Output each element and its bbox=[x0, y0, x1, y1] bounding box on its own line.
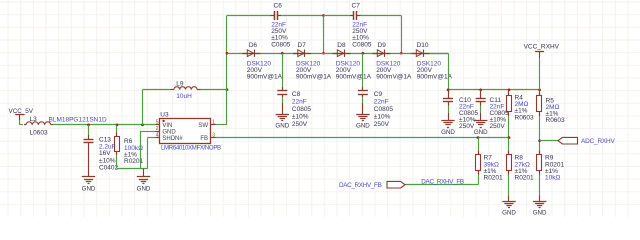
junction FB at R7 bbox=[477, 136, 480, 139]
junction output at C11 bbox=[479, 88, 482, 91]
svg-text:GND: GND bbox=[356, 123, 370, 130]
svg-text:±10%: ±10% bbox=[292, 113, 309, 120]
junction ADC tap bbox=[538, 139, 541, 142]
ground for R8 bbox=[502, 195, 516, 216]
wire DAC line bbox=[405, 184, 478, 186]
capacitor C6 bbox=[271, 2, 291, 48]
svg-text:22nF: 22nF bbox=[292, 98, 307, 105]
svg-text:4: 4 bbox=[156, 132, 159, 138]
junction SW node at diode line bbox=[226, 52, 229, 55]
svg-text:D10: D10 bbox=[417, 42, 429, 49]
capacitor C11 bbox=[476, 90, 509, 130]
capacitor C9 bbox=[358, 53, 393, 128]
svg-text:C7: C7 bbox=[352, 2, 361, 9]
wire U3 SHDN# pin to ground bbox=[148, 138, 156, 169]
svg-text:L0603: L0603 bbox=[30, 130, 48, 137]
svg-text:GND: GND bbox=[474, 129, 488, 136]
wire L9 to SW node bbox=[201, 89, 228, 91]
svg-text:250V: 250V bbox=[459, 123, 475, 130]
wire VIN rail bbox=[53, 124, 156, 126]
wire diode line bbox=[227, 53, 448, 55]
ground for C11 bbox=[474, 113, 488, 136]
capacitor C8 bbox=[277, 53, 311, 128]
svg-text:GND: GND bbox=[162, 130, 176, 136]
hierarchical label ADC_RXHV bbox=[558, 137, 615, 145]
junction right tap at diode line bbox=[400, 52, 403, 55]
wire D10 to output corner bbox=[430, 53, 449, 55]
svg-text:5: 5 bbox=[156, 120, 159, 126]
diode D7 DSK120 bbox=[293, 42, 332, 81]
ground for R9 bbox=[533, 195, 547, 216]
wire ADC tap to label bbox=[540, 140, 558, 142]
ground for C13 bbox=[82, 177, 96, 193]
svg-text:ADC_RXHV: ADC_RXHV bbox=[581, 138, 615, 145]
svg-text:VCC_RXHV: VCC_RXHV bbox=[524, 43, 560, 50]
svg-text:3: 3 bbox=[212, 132, 215, 138]
wire mid vertical C6/C7 tap bbox=[323, 16, 325, 54]
svg-text:L3: L3 bbox=[30, 116, 38, 123]
svg-text:900mV@1A: 900mV@1A bbox=[296, 74, 332, 81]
wire right vertical C7 tap bbox=[401, 16, 403, 54]
svg-text:C0805: C0805 bbox=[352, 41, 372, 48]
ground for U3/R6 bbox=[137, 169, 151, 193]
svg-text:C6: C6 bbox=[274, 2, 283, 9]
svg-text:GND: GND bbox=[533, 210, 547, 217]
net label DAC_RXHV_FB bbox=[421, 178, 464, 185]
svg-text:R0603: R0603 bbox=[515, 114, 535, 121]
svg-text:U3: U3 bbox=[160, 112, 169, 119]
svg-text:1: 1 bbox=[212, 120, 215, 126]
wire C7 to right corner bbox=[361, 15, 402, 17]
svg-text:900mV@1A: 900mV@1A bbox=[376, 74, 412, 81]
ground for C9 bbox=[356, 108, 370, 130]
svg-text:GND: GND bbox=[137, 185, 151, 192]
capacitor C13 bbox=[84, 125, 119, 177]
wire FB line bbox=[216, 137, 509, 139]
svg-text:22nF: 22nF bbox=[374, 98, 389, 105]
resistor R4 bbox=[507, 90, 535, 138]
svg-text:VIN: VIN bbox=[162, 123, 172, 129]
svg-text:C0805: C0805 bbox=[271, 41, 291, 48]
wire output node line bbox=[448, 89, 540, 91]
junction SW node at L9 bbox=[226, 88, 229, 91]
junction output at R4 bbox=[508, 88, 511, 91]
svg-text:GND: GND bbox=[82, 185, 96, 192]
wire VIN rail to L9 bbox=[143, 90, 171, 125]
capacitor C10 bbox=[443, 90, 479, 130]
svg-text:DAC_RXHV_FB: DAC_RXHV_FB bbox=[421, 178, 464, 185]
junction at C13 bbox=[87, 124, 90, 127]
hierarchical label DAC_RXHV_FB bbox=[339, 181, 405, 189]
wire R5 to R9 bbox=[539, 141, 541, 151]
diode D8 DSK120 bbox=[333, 42, 372, 81]
svg-text:250V: 250V bbox=[374, 121, 390, 128]
inductor L9 bbox=[171, 81, 201, 101]
inductor L3 bbox=[24, 116, 107, 137]
power flag VCC_RXHV bbox=[524, 43, 560, 89]
power flag VCC_5V bbox=[9, 108, 34, 120]
diode D10 DSK120 bbox=[412, 42, 453, 81]
capacitor C7 bbox=[350, 2, 372, 48]
resistor R5 bbox=[537, 90, 566, 141]
junction mid tap at diode line bbox=[322, 52, 325, 55]
svg-text:900mV@1A: 900mV@1A bbox=[247, 74, 283, 81]
wire R7 to DAC line bbox=[478, 175, 480, 185]
svg-text:R0603: R0603 bbox=[546, 117, 566, 124]
svg-text:LMR64010XMFX/NOPB: LMR64010XMFX/NOPB bbox=[161, 144, 221, 151]
wire output corner down bbox=[448, 53, 450, 90]
svg-text:C0402: C0402 bbox=[99, 164, 119, 171]
svg-text:SW: SW bbox=[198, 123, 208, 129]
resistor R9 bbox=[537, 150, 565, 195]
IC U3 LMR64010XMFX/NOPB boost converter bbox=[155, 112, 221, 152]
resistor R8 bbox=[507, 138, 535, 196]
svg-text:±10%: ±10% bbox=[374, 113, 391, 120]
svg-text:C9: C9 bbox=[374, 91, 383, 98]
svg-text:FB: FB bbox=[200, 136, 208, 142]
svg-text:C8: C8 bbox=[292, 91, 301, 98]
wire SW node vertical bbox=[226, 16, 228, 125]
junction C8 tap bbox=[281, 52, 284, 55]
svg-text:D6: D6 bbox=[249, 42, 258, 49]
wire GND collector bbox=[117, 168, 148, 170]
svg-text:SHDN#: SHDN# bbox=[162, 136, 183, 142]
wire VCC_5V to L3 bbox=[20, 120, 24, 125]
junction FB at R4/R8 bbox=[508, 136, 511, 139]
svg-text:250V: 250V bbox=[292, 121, 308, 128]
svg-text:C0805: C0805 bbox=[292, 106, 312, 113]
svg-text:2: 2 bbox=[156, 126, 159, 132]
wire mid junction to C7 bbox=[324, 15, 351, 17]
svg-text:L9: L9 bbox=[176, 81, 184, 88]
resistor R6 bbox=[115, 125, 144, 169]
junction at L9 branch bbox=[141, 124, 144, 127]
diode D9 DSK120 bbox=[373, 42, 413, 81]
resistor R7 bbox=[476, 138, 504, 182]
ground for C10 bbox=[441, 113, 455, 136]
ground for C8 bbox=[275, 108, 289, 130]
junction C9 tap bbox=[362, 52, 365, 55]
svg-text:10kΩ: 10kΩ bbox=[545, 175, 560, 182]
svg-text:DAC_RXHV_FB: DAC_RXHV_FB bbox=[339, 182, 382, 189]
wire top left segment bbox=[227, 15, 271, 17]
svg-text:GND: GND bbox=[502, 210, 516, 217]
svg-text:900mV@1A: 900mV@1A bbox=[336, 74, 372, 81]
svg-text:16V: 16V bbox=[99, 150, 111, 157]
junction top mid bbox=[322, 14, 325, 17]
wire U3 GND pin to ground bbox=[140, 131, 156, 168]
svg-text:GND: GND bbox=[441, 129, 455, 136]
diode D6 DSK120 bbox=[243, 42, 283, 81]
wire SW pin to SW node bbox=[216, 124, 227, 126]
junction output at R5/VCC bbox=[538, 88, 541, 91]
svg-text:D9: D9 bbox=[378, 42, 387, 49]
svg-text:900mV@1A: 900mV@1A bbox=[417, 74, 453, 81]
junction output at C10 bbox=[447, 88, 450, 91]
svg-text:BLM18PG121SN1D: BLM18PG121SN1D bbox=[49, 117, 107, 124]
svg-text:250V: 250V bbox=[490, 123, 506, 130]
svg-text:GND: GND bbox=[275, 123, 289, 130]
svg-text:D7: D7 bbox=[298, 42, 307, 49]
junction at R6 bbox=[116, 124, 119, 127]
svg-text:10uH: 10uH bbox=[176, 93, 192, 100]
wire C6 to mid junction bbox=[281, 15, 323, 17]
svg-text:R0201: R0201 bbox=[484, 175, 504, 182]
svg-text:R0201: R0201 bbox=[515, 175, 535, 182]
svg-text:C0805: C0805 bbox=[374, 106, 394, 113]
svg-text:D8: D8 bbox=[337, 42, 346, 49]
